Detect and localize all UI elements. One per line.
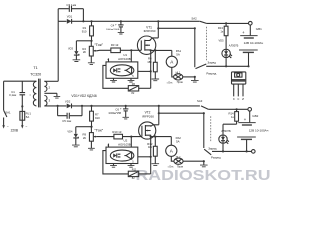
wire to GB2 plus [208,108,248,110]
optocoupler U2 [106,147,138,163]
label winding 3 [49,99,51,103]
diode VD1 [67,19,72,24]
label HL1 [176,71,181,74]
wire mains terminal L [2,118,5,129]
watermark RADIOSKOT.RU [136,168,271,184]
label winding 2 [49,86,51,90]
svg-text:2К: 2К [83,136,87,140]
label R6 [132,82,136,86]
wire VT2 drain [151,106,159,127]
wire fuse branch [21,81,23,92]
wire U1 gnd pins [114,78,132,80]
label R11 [132,168,137,172]
svg-text:IRFP260: IRFP260 [142,114,154,118]
wire lamp right ch1 [183,76,195,78]
label C3 1мк [66,3,76,7]
capacitor C4 [118,21,123,32]
junction C6 top [125,105,127,107]
label C6 value [108,113,121,115]
package IRFP260 pinout [232,72,246,97]
battery GB1 [239,36,258,53]
terminal GB1 plus [249,21,253,25]
junction source-R11 [150,136,152,138]
svg-text:VD2: VD2 [65,100,71,104]
label PA2 [176,136,182,140]
wire rail minus ch1 [206,65,248,67]
label TC320 [30,72,41,76]
wire gate ch1 [120,49,141,51]
ground center tap [54,96,61,98]
wire gate ch2 [123,136,142,138]
label C1 [9,90,17,97]
svg-text:SA2: SA2 [191,17,197,21]
capacitor C5 [67,113,69,119]
wire VT1 source [150,49,172,51]
label R2 2К [82,47,86,54]
capacitor C6 [123,106,128,117]
resistor R1 [90,21,94,41]
potentiometer R9 [89,127,96,148]
junction lamp2 stub [203,160,205,162]
label SA3 [197,99,203,103]
svg-text:910: 910 [82,29,87,33]
label + GB2 [244,117,247,122]
svg-text:VD4: VD4 [67,129,73,133]
svg-text:2К: 2К [83,50,87,54]
wire U2 gnd pins [114,164,132,166]
wire PA2 to lamp [171,156,174,161]
svg-text:Заряд: Заряд [208,146,216,150]
label VD1 [67,14,73,18]
wire VD6 cathode [222,144,224,152]
label R6 value [131,91,134,95]
optocoupler U1 [106,62,138,78]
wire VT2 source [151,136,172,138]
junction GB2 minus [246,150,248,152]
junction C4 top [120,20,122,22]
wire R6 riser [150,50,152,88]
svg-text:R10 1К: R10 1К [112,130,121,134]
switch SA2 blade1 [200,21,206,23]
svg-text:1000мк*200В: 1000мк*200В [106,29,120,31]
label Разряд ch2 [211,155,221,159]
junction loop-rail [82,20,84,22]
label VT1 type [144,29,156,33]
junction branch2 left [158,112,160,114]
wire GB1 plus [249,25,251,36]
junction source-R12 [154,136,156,138]
wire C5 loop [58,106,82,116]
junction source-R4 [154,49,156,51]
label FU1 5А [26,112,32,119]
transformer secondary winding 2 [44,81,47,91]
switch SA1 mains [4,110,7,117]
label GB1 value [244,41,264,45]
wire riser ch1 [57,21,59,81]
label U1 type [118,57,131,61]
resistor R12 [153,137,157,164]
svg-text:С6: С6 [115,108,119,112]
transformer T1 primary winding [33,82,36,106]
svg-text:+: + [120,107,122,111]
switch SA3 blade2 [204,113,211,155]
label pin5 U2 [132,160,134,163]
svg-text:С4: С4 [111,24,115,28]
link SA3 dashed [210,116,212,142]
svg-text:GB2: GB2 [252,114,258,118]
wire R14 to led [223,124,237,134]
wire C3 loop [58,9,83,22]
wire mains left [4,81,37,110]
svg-text:0,1мк: 0,1мк [9,93,17,97]
ground R9 [88,148,95,150]
label HL2 [176,156,181,159]
label 220В [11,128,18,132]
wire U1 left loop [103,65,128,88]
junction C5 left [57,105,59,107]
label winding 1 [30,93,31,97]
resistor R13 [224,23,228,48]
label pin5 U1 [132,75,134,78]
svg-text:RADIOSKOT.RU: RADIOSKOT.RU [136,168,271,181]
wire node ch1 [76,40,91,42]
svg-text:VD1: VD1 [67,14,73,18]
link SA2 dashed [205,27,207,62]
label pin4 U2 [107,144,109,147]
label Пров ch1 [177,81,184,84]
wire VT1 drain [150,21,158,40]
svg-text:Разряд: Разряд [211,155,221,159]
svg-text:ТС320: ТС320 [30,72,41,76]
label + GB1 [242,30,245,35]
label Откл ch1 [167,81,173,84]
svg-text:Разряд: Разряд [206,72,216,76]
label + C4 [115,23,117,27]
wire wiper ch1 [97,49,111,52]
label Откл ch2 [168,166,174,169]
label Пров ch2 [177,166,184,169]
svg-text:GB1: GB1 [256,27,262,31]
svg-text:220В: 220В [11,128,18,132]
svg-text:R3 1К: R3 1К [111,43,119,47]
junction R7 bottom [90,126,92,128]
label PA1 [176,49,182,53]
wire PA1 to lamp [172,67,174,77]
svg-text:“Ток”: “Ток” [94,42,103,47]
ground C6 [123,117,129,119]
label U2 type [118,142,131,146]
lamp HL1 [174,74,183,80]
svg-text:Заряд: Заряд [207,60,216,64]
svg-text:5А: 5А [26,115,30,119]
label Ток ch2 [94,128,103,133]
svg-text:R6: R6 [132,82,136,86]
resistor R11 [128,171,150,176]
ground U2 left [110,166,117,168]
wire ammeter riser ch2 [170,137,172,146]
transformer secondary winding 3 [44,96,47,106]
wire U2 pin4 stub [108,144,110,148]
wire lamp right ch2 [183,160,204,162]
junction gate-U1 [130,49,132,51]
resistor R10 [114,134,123,139]
svg-text:С5 1мк: С5 1мк [62,119,72,123]
label C4 [111,24,115,28]
wire U2 out pin [138,156,151,158]
label R4 1Вт [147,56,152,63]
svg-text:И: И [242,97,244,101]
label GB2 [252,114,258,118]
terminal GB2 minus [252,150,256,154]
svg-text:Пров: Пров [177,81,184,84]
wire secondary top [44,80,58,82]
wire rail1 [58,20,200,22]
switch SA2 blade2 [195,28,207,68]
label VD1 VD2 [71,94,96,98]
junction lamp stub [194,76,196,78]
ground C4 [118,32,124,34]
label VT1 [146,25,152,29]
label R7 910 [95,112,100,119]
resistor R7 [90,106,94,127]
led VD6 [219,135,229,144]
wire GB2 minus [246,139,248,151]
ground U2 right [128,166,135,168]
wire U1 pin4 stub [108,58,110,62]
ammeter PA2 [166,145,177,156]
junction gate-U2 [130,136,132,138]
svg-text:“Ток”: “Ток” [94,128,103,133]
svg-text:R11: R11 [132,168,137,172]
label C6 [115,108,119,112]
junction branch2 right [203,112,205,114]
junction R1 bottom [90,40,92,42]
zener VD3 [74,41,79,60]
label T1 [33,66,37,70]
wire mains terminal R [21,120,24,128]
label VD2 [65,100,71,104]
svg-text:910: 910 [95,116,100,120]
resistor R14 [235,109,239,124]
ground U1 right [128,80,135,82]
junction GB1 minus [247,65,249,67]
wire wiper ch2 [97,136,114,138]
svg-text:С3 1мк: С3 1мк [66,3,76,7]
svg-text:12В 10-100Ач: 12В 10-100Ач [244,41,264,45]
junction VD6 rail [222,150,224,152]
label C4 value [106,29,120,31]
wire to GB1 plus [206,22,248,24]
resistor R3 [111,48,121,53]
svg-text:г.Отк: г.Отк [168,166,174,169]
wire SA2 gnd stub [194,77,196,80]
wire rail minus ch2 [212,150,252,152]
label U2 [123,138,127,142]
ground VD4 [72,145,80,147]
label + C6 [120,107,122,111]
label pins ЗСИ [233,97,244,101]
label VD5 [219,39,225,43]
svg-text:1000мк*25В: 1000мк*25В [108,113,121,115]
ground VD3 [73,60,81,62]
label R11 value [132,176,135,180]
label SA1 [5,111,11,115]
junction R13 top [225,22,227,24]
label Заряд ch2 [208,146,216,150]
junction C5 right [81,105,83,107]
transistor VT1 [137,36,155,54]
junction drain-rail [157,20,159,22]
label GB2 value [249,128,269,132]
ground R12 [152,164,160,166]
label R10 1К [112,130,121,134]
junction source-R6 [150,49,152,51]
label ~ right [25,125,27,129]
ground SA3 [200,165,208,167]
svg-text:АОУ103В: АОУ103В [118,142,131,146]
label R14 1к [228,112,234,119]
label VD6 type [221,129,231,133]
ground R2 [88,63,95,65]
diode VD2 [67,104,72,109]
label C5 1мк [62,119,72,123]
switch SA3 blade1 [201,106,208,109]
label PA2 5A [176,139,180,143]
wire R11 riser [150,137,152,174]
label SA2 [191,17,197,21]
wire branch ch2 [159,112,204,114]
label GB1 [256,27,262,31]
ammeter PA1 [166,56,177,67]
label VD5 type [229,44,239,48]
transformer core [39,79,41,108]
svg-text:5А: 5А [176,53,180,57]
junction primary-bottom [21,105,23,107]
label R13 1к [218,26,224,33]
wire center tap [44,93,57,96]
resistor R4 [153,50,157,78]
junction branch left [157,27,159,29]
junction R7 top [90,105,92,107]
svg-text:12В 10-100Ач: 12В 10-100Ач [249,128,269,132]
wire node ch2 [76,126,92,128]
capacitor C1 [20,93,26,112]
svg-text:АЛ307Б: АЛ307Б [221,129,231,133]
svg-text:5А: 5А [176,139,180,143]
wire rail2 [44,105,200,107]
svg-text:~: ~ [7,125,9,129]
wire VD5 cathode [225,58,227,66]
label U1 [123,53,127,57]
svg-text:IRFP260: IRFP260 [144,29,156,33]
svg-text:Пров: Пров [177,166,184,169]
junction U2 out [150,156,152,158]
svg-text:+: + [115,23,117,27]
battery GB2 [237,123,256,140]
label Разряд ch1 [206,72,216,76]
svg-text:АОУ103В: АОУ103В [118,57,131,61]
svg-text:SA1: SA1 [5,111,11,115]
label Заряд ch1 [207,60,216,64]
led VD5 [222,49,232,58]
lamp HL2 [174,158,183,164]
wire U1 pin8 [130,50,132,62]
wire U1 out pin [138,70,151,72]
wire branch ch1 [158,27,195,29]
svg-text:~: ~ [25,125,27,129]
svg-text:1Вт: 1Вт [147,60,152,64]
junction branch right [194,27,196,29]
label ~ left [7,125,9,129]
wire SA3 gnd stub [203,161,205,165]
svg-text:VD5: VD5 [219,39,225,43]
label pin4 U1 [107,59,109,62]
svg-text:Т1: Т1 [33,66,37,70]
label VT2 [145,111,151,115]
svg-text:SA3: SA3 [197,99,203,103]
label VD4 [67,129,73,133]
wire GB2 plus [249,111,251,122]
svg-text:VD3: VD3 [68,46,74,50]
junction U1 out [150,70,152,72]
svg-text:VD1+VD2 КД246: VD1+VD2 КД246 [71,94,96,98]
label R9 2К [83,133,87,140]
wire GB1 minus [248,52,250,66]
ground U1 left [110,80,117,82]
fuse FU1 [20,111,25,120]
ground R4 [152,79,160,81]
wire U2 pin8 [130,137,132,148]
label VT2 type [142,114,154,118]
zener VD4 [73,127,78,145]
label VD3 [68,46,74,50]
junction drain-rail2 [158,105,160,107]
label R1 910 [82,26,87,33]
svg-text:С: С [237,97,239,101]
junction R1 top [90,20,92,22]
transistor VT2 [139,122,156,139]
terminal GB2 plus [248,108,252,112]
label R3 1К [111,43,119,47]
resistor R6 [128,86,150,91]
wire U2 left loop [103,151,128,174]
junction VD5 rail [225,65,227,67]
label R12 1Вт [147,142,153,149]
svg-text:г.Отк: г.Отк [167,81,173,84]
capacitor C3 [69,6,71,12]
ground SA2 [191,80,199,82]
wire ammeter riser ch1 [171,50,173,56]
junction R14 top [236,108,238,110]
potentiometer R2 [89,41,96,63]
svg-text:АЛ307Б: АЛ307Б [229,44,239,48]
label PA1 5A [176,53,180,57]
label Ток ch1 [94,42,103,47]
